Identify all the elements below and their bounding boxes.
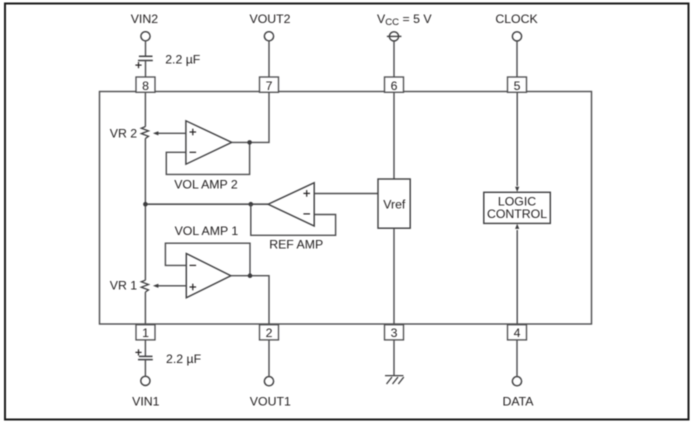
wire Vref to pin 3 [393,228,395,324]
wire VR1 down to pin 1 [144,292,146,324]
node wire (REF AMP output rail) [145,203,268,205]
plus symbol VOL AMP 1 [190,284,197,291]
svg-text:CLOCK: CLOCK [495,12,538,26]
junction VOL AMP 2 output [247,140,252,145]
pin 7 box [260,77,279,92]
wiper wire VR2 to VOL AMP 2 + input [155,132,186,134]
minus symbol VOL AMP 1 [190,264,197,266]
wire VOUT2 terminal to pin 7 [268,41,270,77]
svg-text:VIN1: VIN1 [132,394,159,408]
svg-text:Vref: Vref [383,197,406,211]
pin 4 box [508,325,527,340]
wire pin 6 to Vref [393,92,395,179]
svg-text:2: 2 [266,326,273,340]
terminal DATA [512,377,521,386]
terminal VIN2 [141,32,150,41]
svg-text:VR 2: VR 2 [110,126,137,140]
svg-text:VOL AMP 2: VOL AMP 2 [174,177,238,191]
svg-text:5: 5 [514,79,521,93]
svg-text:VIN2: VIN2 [131,12,158,26]
minus symbol VOL AMP 2 [190,151,197,153]
terminal VOUT1 [264,377,273,386]
pin 1 box [136,325,155,340]
pin 3 box [385,325,404,340]
svg-text:VR 1: VR 1 [110,278,137,292]
terminal VOUT2 [264,32,273,41]
feedback wire REF AMP (- input loop) [251,204,336,235]
LOGIC CONTROL box [484,192,551,223]
wire pin 1 to capacitor (bottom) [144,340,146,357]
wire VIN2 terminal to capacitor [145,41,147,57]
wire pin 4 to DATA terminal [516,340,518,377]
svg-text:2.2 µF: 2.2 µF [166,352,202,366]
resistor VR2 (zigzag) [141,127,148,139]
svg-text:4: 4 [514,326,521,340]
svg-text:1: 1 [142,326,149,340]
terminal CLOCK [512,32,521,41]
plus sign of capacitor C_VIN1 [135,349,141,355]
pin 6 box [385,77,404,92]
plus symbol REF AMP [303,190,310,197]
svg-text:REF AMP: REF AMP [269,238,323,252]
plus symbol VOL AMP 2 [190,129,197,136]
svg-text:7: 7 [266,79,273,93]
wire CLOCK terminal to pin 5 [516,41,518,77]
op-amp U2 VOL AMP 1 [186,254,231,298]
output wire VOL AMP 2 to pin 7 [232,92,269,142]
junction node at REF AMP output [249,202,254,207]
terminal VIN1 [141,376,150,385]
wiper arrowhead at VR2 [153,131,159,135]
arrowhead into LOGIC CONTROL top [515,187,519,192]
svg-text:3: 3 [391,326,398,340]
svg-text:VOL AMP 1: VOL AMP 1 [175,224,239,238]
op-amp U1 VOL AMP 2 [186,121,232,164]
junction node at left rail [143,202,148,207]
plus sign of capacitor C_VIN2 [135,62,141,68]
minus symbol REF AMP [303,213,310,215]
ground symbol [385,376,404,384]
wire capacitor to pin 8 [145,61,147,78]
wire pin 8 down to VR2 [144,92,146,126]
wire capacitor to VIN1 terminal [144,360,146,377]
capacitor C_VIN1 2.2uF [138,356,153,359]
capacitor C_VIN2 2.2uF [138,56,153,60]
svg-text:8: 8 [142,79,149,93]
wiper wire VR1 to VOL AMP 1 + input [155,285,186,287]
pin 2 box [260,325,279,340]
output wire VOL AMP 1 to pin 2 [231,276,269,325]
wire pin 3 to ground [393,340,395,376]
svg-text:VOUT1: VOUT1 [250,394,291,408]
feedback wire VOL AMP 1 (- input loop) [165,243,250,276]
wire Vref to REF AMP + input [314,193,378,195]
junction VOL AMP 1 output [248,273,253,278]
wire VR2 down to node A [144,138,146,280]
svg-text:VOUT2: VOUT2 [250,12,291,26]
Vref box [378,179,410,228]
svg-text:DATA: DATA [503,394,535,408]
pin 5 box [508,77,527,92]
wire pin 5 to LOGIC CONTROL (clock) [516,92,518,186]
arrowhead into LOGIC CONTROL bottom [515,224,519,229]
pin 8 box [136,77,527,340]
wire pin 4 to LOGIC CONTROL (data) [516,230,518,324]
svg-text:6: 6 [391,79,398,93]
feedback wire VOL AMP 2 (- input loop) [166,142,249,174]
wire pin 2 to VOUT1 terminal [268,340,270,377]
wire VCC terminal to pin 6 [393,41,395,77]
terminal VCC (power) [387,32,402,41]
wiper arrowhead at VR1 [153,284,159,288]
resistor VR1 (zigzag) [141,280,148,292]
svg-text:CONTROL: CONTROL [487,207,547,221]
IC package box [100,92,592,325]
svg-text:2.2 µF: 2.2 µF [165,52,201,66]
op-amp U3 REF AMP (points left) [268,183,314,226]
